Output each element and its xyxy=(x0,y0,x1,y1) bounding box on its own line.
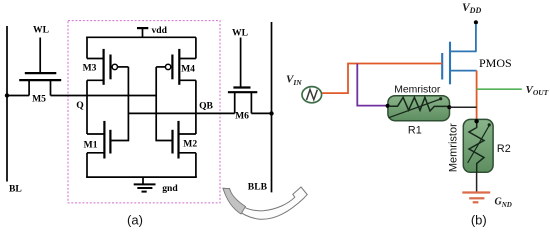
wire M3 gate to cross-couple column A xyxy=(118,66,129,68)
wire BL to M5 xyxy=(7,95,29,97)
BLB bit line xyxy=(271,22,273,192)
memristor R1 xyxy=(388,96,450,121)
svg-text:M1: M1 xyxy=(84,140,98,151)
node VDD terminal dot xyxy=(474,20,478,24)
svg-text:M5: M5 xyxy=(32,94,46,105)
transistor PMOS (blue) xyxy=(442,42,476,85)
wire M2 source to gnd rail xyxy=(195,153,197,177)
wire right inverter output column xyxy=(195,80,197,134)
svg-text:Memristor: Memristor xyxy=(448,123,460,172)
svg-text:vdd: vdd xyxy=(152,25,168,36)
wire left inverter output column xyxy=(86,80,88,134)
ground symbol gnd xyxy=(134,177,156,192)
svg-text:(b): (b) xyxy=(471,213,487,228)
wire R1 to node (black) xyxy=(449,106,476,108)
dashed box xyxy=(68,21,220,203)
wire M6 to BLB xyxy=(251,112,271,114)
wire cross-couple column B (Q feed) xyxy=(156,67,172,141)
svg-text:Memristor: Memristor xyxy=(394,84,441,95)
svg-text:WL: WL xyxy=(232,28,248,39)
svg-text:WL: WL xyxy=(33,25,49,36)
transistor M6 xyxy=(228,38,257,114)
svg-text:M6: M6 xyxy=(235,110,249,121)
ground symbol GND (orange) xyxy=(462,193,490,203)
wire R2 to ground (black) xyxy=(476,172,478,193)
BL bit line xyxy=(6,26,8,182)
node R1 right terminal dot xyxy=(447,105,451,109)
svg-text:M4: M4 xyxy=(181,64,195,75)
svg-text:BL: BL xyxy=(9,184,22,195)
wire node QB horizontal xyxy=(128,112,234,114)
source AC symbol xyxy=(302,87,322,103)
svg-text:gnd: gnd xyxy=(162,183,178,194)
svg-text:QB: QB xyxy=(199,100,213,111)
node R1 left terminal dot xyxy=(386,104,390,108)
svg-text:M2: M2 xyxy=(183,139,197,150)
wire node Q horizontal xyxy=(51,95,157,97)
transistor M2 xyxy=(173,121,196,159)
memristor R2 xyxy=(463,119,493,172)
curved swoosh arrow xyxy=(223,187,307,219)
svg-text:R1: R1 xyxy=(408,124,422,136)
transistor M5 xyxy=(19,38,61,96)
vdd supply symbol xyxy=(137,28,148,37)
wire M4 gate to cross-couple column B xyxy=(156,66,165,68)
wire M1 source to gnd rail xyxy=(86,153,88,177)
node R2 top junction dot xyxy=(474,119,478,123)
svg-text:BLB: BLB xyxy=(248,182,268,193)
node BL-Q junction dot xyxy=(5,93,9,97)
wire VDD lead (blue) xyxy=(475,24,477,51)
node QB-BLB junction dot xyxy=(269,111,273,115)
svg-text:R2: R2 xyxy=(497,143,511,155)
transistor M4 xyxy=(165,37,195,85)
transistor M3 xyxy=(87,37,118,85)
wire VOUT (green) xyxy=(477,88,522,90)
svg-text:(a): (a) xyxy=(127,213,143,228)
svg-text:M3: M3 xyxy=(83,63,97,74)
wire VIN to riser (orange) xyxy=(322,64,442,94)
svg-text:PMOS: PMOS xyxy=(479,56,512,70)
wire cross-couple column A (QB feed) xyxy=(110,67,128,141)
wire gnd bottom rail xyxy=(86,176,197,178)
wire PMOS source to node (orange) xyxy=(476,71,478,122)
wire vdd top rail xyxy=(86,36,196,38)
wire VIN to R1 (purple) xyxy=(357,64,387,106)
transistor M1 xyxy=(87,121,110,159)
svg-text:Q: Q xyxy=(76,100,84,111)
